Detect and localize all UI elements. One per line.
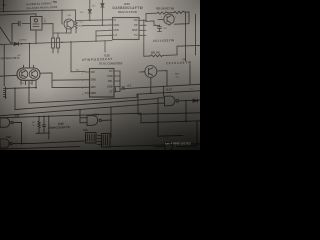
svg-text:kak 4 9995 101703: kak 4 9995 101703	[165, 142, 191, 146]
